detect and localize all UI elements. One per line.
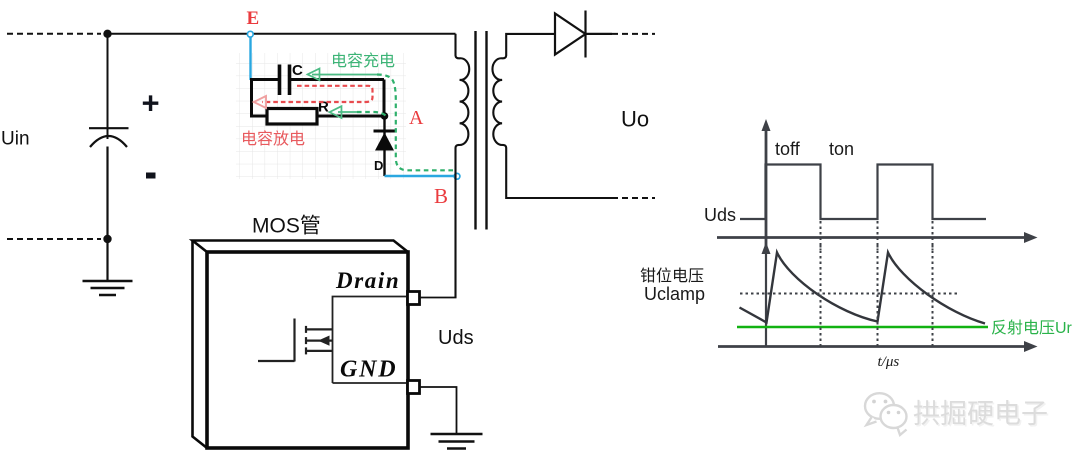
transformer core (474, 31, 476, 230)
wire top rail dashed left (7, 33, 101, 35)
svg-text:拱掘硬电子: 拱掘硬电子 (913, 399, 1048, 429)
transformer secondary coils and top wire (492, 34, 612, 198)
svg-text:Uclamp: Uclamp (644, 284, 705, 304)
pin gnd (408, 381, 420, 394)
snubber loop wires (250, 78, 385, 118)
green charge path solid arrow lines (312, 75, 377, 113)
wire snubber bottom (250, 115, 385, 118)
node junction dot bottom-left (103, 235, 111, 243)
pin drain (408, 292, 420, 305)
top plot h axis (717, 232, 1038, 243)
svg-text:Uo: Uo (621, 107, 649, 132)
green arrowhead top (308, 69, 320, 81)
svg-text:+: + (142, 86, 160, 121)
svg-text:A: A (409, 107, 424, 129)
square wave Uds (740, 165, 986, 220)
green reflect line (737, 326, 988, 329)
wire snubber left (250, 78, 253, 118)
top plot v axis (762, 119, 771, 250)
clamp waveform (740, 253, 986, 324)
capacitor Uin (89, 128, 129, 147)
wire gnd pin (420, 387, 457, 434)
wire snubber top left segment (250, 78, 279, 81)
svg-text:Uds: Uds (704, 205, 736, 225)
svg-text:MOS管: MOS管 (252, 215, 321, 238)
MOS package 3D box (193, 241, 409, 449)
bottom plot h axis (718, 341, 1038, 352)
svg-text:反射电压Ur: 反射电压Ur (991, 319, 1073, 337)
svg-text:toff: toff (775, 139, 801, 159)
svg-text:C: C (292, 62, 303, 79)
svg-text:B: B (434, 184, 448, 208)
svg-text:D: D (374, 158, 383, 173)
wire Uin branch lower (106, 147, 108, 282)
wire cyan E drop (249, 37, 251, 80)
bottom plot v axis (762, 242, 771, 347)
red arrowhead (254, 96, 266, 108)
svg-text:电容放电: 电容放电 (241, 130, 305, 148)
wire snubber top right segment (291, 78, 385, 81)
resistor R box (267, 109, 317, 125)
green dashed charge path (357, 75, 454, 171)
wire Uin branch upper (107, 34, 109, 139)
wire drain to transformer (420, 297, 457, 299)
wire cyan B segment (385, 175, 457, 177)
dotted ticks top plot (821, 221, 933, 250)
wire secondary bottom dashed (612, 197, 655, 199)
svg-text:t/μs: t/μs (878, 354, 900, 370)
grid backdrop of snubber region (236, 53, 406, 179)
wire bottom rail dashed left (7, 238, 101, 240)
svg-text:Drain: Drain (335, 268, 400, 293)
mosfet symbol (258, 319, 333, 362)
wire snubber right (383, 80, 386, 117)
node E circle (247, 31, 253, 37)
svg-text:电容充电: 电容充电 (331, 52, 395, 70)
node B circle (454, 173, 460, 179)
red dashed discharge path (262, 86, 373, 102)
ground left (83, 281, 133, 295)
transformer primary coils (456, 34, 470, 298)
node A dot (381, 112, 389, 120)
wire output top (586, 33, 613, 35)
green arrowhead mid (330, 106, 342, 118)
capacitor C plates (280, 65, 290, 96)
svg-text:E: E (247, 8, 260, 29)
dotted horizontal uclamp (740, 293, 960, 295)
diode D (374, 116, 396, 176)
svg-text:Uin: Uin (1, 129, 30, 150)
node junction dot top-left (103, 30, 111, 38)
mosfet body arrow (318, 336, 330, 346)
svg-text:钳位电压: 钳位电压 (640, 267, 704, 285)
diode output (555, 11, 586, 58)
label - (146, 173, 156, 179)
svg-text:GND: GND (340, 357, 397, 383)
svg-text:Uds: Uds (438, 327, 474, 349)
watermark logo (865, 393, 907, 435)
MOS inner die outline (333, 297, 407, 384)
ground right (431, 434, 483, 449)
wire top rail solid (108, 33, 456, 35)
svg-text:ton: ton (829, 139, 854, 159)
dotted verticals bottom plot (821, 245, 933, 346)
